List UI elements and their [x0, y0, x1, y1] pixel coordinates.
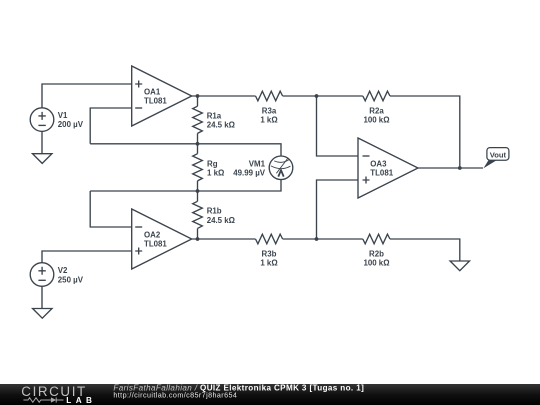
- svg-text:24.5 kΩ: 24.5 kΩ: [207, 216, 235, 225]
- svg-text:VM1: VM1: [249, 159, 266, 168]
- svg-text:R3a: R3a: [262, 106, 277, 115]
- svg-text:Rg: Rg: [207, 159, 218, 168]
- svg-text:OA1: OA1: [144, 88, 161, 97]
- svg-text:OA3: OA3: [370, 159, 387, 168]
- svg-text:200 µV: 200 µV: [58, 120, 84, 129]
- svg-text:OA2: OA2: [144, 231, 161, 240]
- svg-text:R1a: R1a: [207, 111, 222, 120]
- svg-text:1 kΩ: 1 kΩ: [260, 258, 277, 267]
- svg-text:LAB: LAB: [66, 396, 96, 405]
- svg-text:49.99 µV: 49.99 µV: [233, 169, 265, 178]
- svg-text:1 kΩ: 1 kΩ: [260, 115, 277, 124]
- svg-text:24.5 kΩ: 24.5 kΩ: [207, 121, 235, 130]
- svg-text:Vout: Vout: [490, 150, 507, 159]
- svg-text:TL081: TL081: [144, 240, 167, 249]
- svg-text:http://circuitlab.com/c85r7j8h: http://circuitlab.com/c85r7j8har654: [113, 390, 237, 399]
- svg-text:1 kΩ: 1 kΩ: [207, 169, 224, 178]
- svg-text:R1b: R1b: [207, 207, 222, 216]
- svg-text:TL081: TL081: [370, 168, 393, 177]
- svg-text:V2: V2: [58, 266, 68, 275]
- svg-text:R3b: R3b: [262, 249, 277, 258]
- svg-text:TL081: TL081: [144, 97, 167, 106]
- svg-text:R2a: R2a: [369, 106, 384, 115]
- svg-text:R2b: R2b: [369, 249, 384, 258]
- svg-text:100 kΩ: 100 kΩ: [363, 258, 389, 267]
- svg-text:250 µV: 250 µV: [58, 275, 84, 284]
- svg-text:100 kΩ: 100 kΩ: [363, 115, 389, 124]
- svg-text:V1: V1: [58, 111, 68, 120]
